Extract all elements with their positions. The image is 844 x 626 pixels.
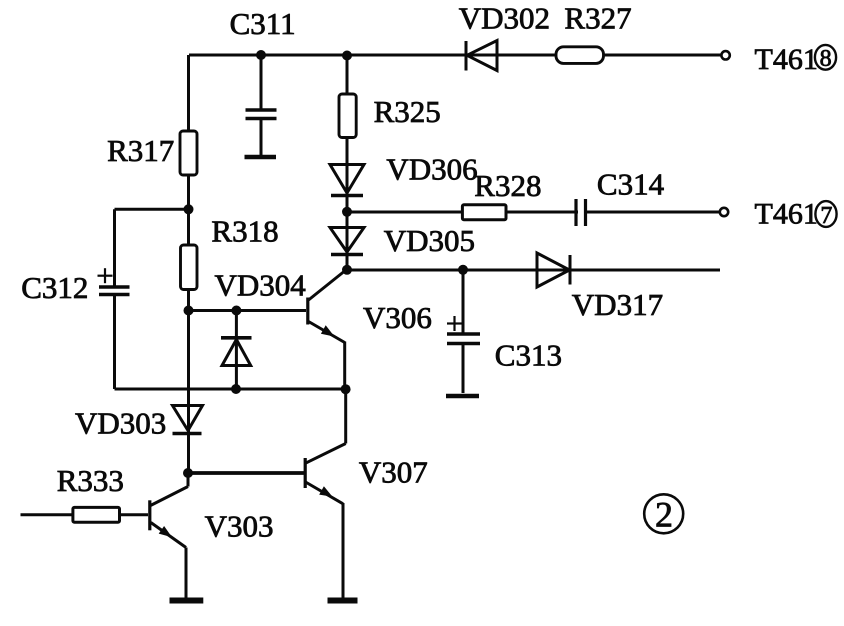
svg-text:7: 7 — [820, 203, 832, 229]
capacitor C313 — [446, 270, 480, 396]
svg-text:VD306: VD306 — [386, 151, 477, 186]
diode VD304 — [221, 311, 252, 390]
node VD306-VD305 junction — [342, 207, 352, 217]
wire V303 collector to V307 base (thick) — [188, 471, 305, 475]
wire y=389 rail — [115, 388, 346, 391]
svg-text:VD304: VD304 — [215, 268, 307, 303]
diode VD306 — [330, 165, 364, 196]
wire to C312 branch — [115, 208, 189, 211]
node VD304 top — [231, 306, 241, 316]
svg-text:8: 8 — [820, 46, 832, 72]
svg-text:R333: R333 — [57, 463, 124, 498]
svg-text:2: 2 — [655, 495, 673, 535]
transistor V307 — [304, 389, 346, 598]
svg-text:C313: C313 — [495, 338, 562, 373]
svg-text:V306: V306 — [363, 300, 432, 335]
svg-text:R318: R318 — [211, 213, 278, 248]
svg-text:R328: R328 — [474, 168, 541, 203]
capacitor C312 — [98, 268, 130, 389]
svg-text:C311: C311 — [230, 6, 296, 41]
node R325 top — [342, 51, 352, 61]
wire R325 column vertical — [346, 55, 349, 270]
capacitor C311 — [245, 55, 277, 157]
node V306 emitter junction — [341, 384, 351, 394]
resistor R317 — [180, 131, 197, 175]
diode VD317 — [537, 253, 570, 287]
svg-text:V303: V303 — [205, 509, 274, 544]
svg-text:VD305: VD305 — [384, 223, 475, 258]
node C313 top — [458, 265, 468, 275]
diode VD303 — [173, 406, 203, 434]
wire left vertical x=188.5 — [187, 55, 190, 473]
svg-text:T461: T461 — [755, 43, 818, 76]
node C311 top — [256, 50, 266, 60]
wire top rail y=55 — [189, 54, 721, 57]
node R317 bottom junction — [184, 204, 194, 214]
capacitor C314 — [576, 199, 586, 226]
svg-text:R327: R327 — [564, 1, 631, 36]
svg-text:R325: R325 — [374, 94, 441, 129]
wire R318 bottom to V306 base — [189, 309, 307, 312]
svg-text:VD303: VD303 — [75, 405, 166, 440]
ground V307 — [328, 598, 358, 604]
svg-text:V307: V307 — [359, 455, 428, 490]
terminal T461-7 — [720, 208, 728, 216]
node VD304 bottom — [231, 384, 241, 394]
node VD305 bottom junction — [342, 265, 352, 275]
wire lower rail y=270 — [347, 269, 720, 272]
page number circled 2 — [644, 494, 683, 533]
resistor R318 — [181, 245, 198, 290]
svg-text:VD302: VD302 — [459, 1, 550, 36]
resistor R333 — [21, 507, 149, 522]
node R318 bottom junction — [184, 306, 194, 316]
svg-text:T461: T461 — [755, 197, 818, 230]
wire C312 upper lead — [113, 209, 116, 286]
node VD303 bottom junction — [183, 468, 193, 478]
resistor R327 — [556, 47, 604, 64]
transistor V306 — [306, 271, 345, 390]
wire middle rail y=212 — [347, 211, 720, 214]
transistor V303 — [148, 473, 188, 598]
resistor R325 — [339, 94, 356, 138]
resistor R328 — [462, 205, 506, 220]
svg-text:R317: R317 — [107, 133, 174, 168]
svg-text:VD317: VD317 — [572, 287, 663, 322]
terminal T461-8 — [721, 51, 729, 59]
svg-text:C314: C314 — [597, 167, 665, 202]
ground V303 — [170, 598, 204, 604]
diode VD302 — [466, 41, 497, 71]
diode VD305 — [330, 228, 364, 255]
svg-text:C312: C312 — [21, 270, 88, 305]
